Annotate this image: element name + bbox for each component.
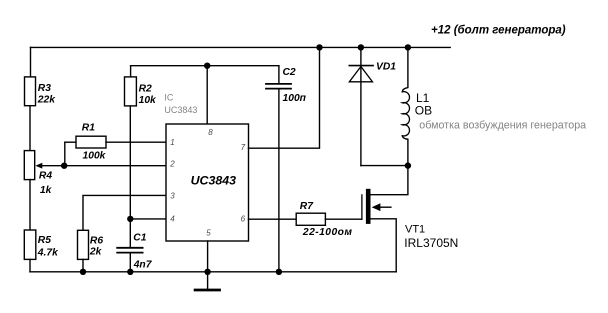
svg-text:8: 8 bbox=[208, 128, 213, 137]
svg-text:IC: IC bbox=[164, 92, 174, 102]
svg-text:100п: 100п bbox=[283, 93, 307, 104]
svg-text:7: 7 bbox=[241, 143, 246, 152]
svg-text:VD1: VD1 bbox=[376, 61, 396, 72]
svg-text:10k: 10k bbox=[139, 95, 157, 106]
svg-text:4.7k: 4.7k bbox=[37, 247, 59, 258]
svg-text:1: 1 bbox=[170, 138, 174, 147]
svg-text:IRL3705N: IRL3705N bbox=[404, 236, 458, 250]
svg-text:100k: 100k bbox=[83, 151, 107, 162]
svg-text:ОВ: ОВ bbox=[415, 104, 432, 118]
svg-text:6: 6 bbox=[241, 215, 246, 224]
svg-text:R6: R6 bbox=[90, 235, 103, 246]
svg-text:22-100ом: 22-100ом bbox=[302, 227, 353, 238]
svg-text:4n7: 4n7 bbox=[133, 260, 153, 271]
svg-text:3: 3 bbox=[170, 191, 175, 200]
svg-text:R2: R2 bbox=[139, 83, 152, 94]
svg-text:C1: C1 bbox=[133, 232, 146, 243]
svg-text:1k: 1k bbox=[40, 185, 53, 196]
svg-text:R7: R7 bbox=[300, 201, 314, 212]
svg-text:R5: R5 bbox=[38, 235, 51, 246]
svg-text:4: 4 bbox=[170, 214, 175, 223]
svg-text:R3: R3 bbox=[38, 83, 51, 94]
svg-text:5: 5 bbox=[206, 228, 211, 237]
svg-text:22k: 22k bbox=[37, 95, 56, 106]
svg-text:R1: R1 bbox=[82, 122, 95, 133]
svg-text:VT1: VT1 bbox=[405, 224, 425, 236]
svg-text:R4: R4 bbox=[39, 171, 52, 182]
svg-text:2: 2 bbox=[169, 160, 175, 169]
svg-text:UC3843: UC3843 bbox=[164, 105, 197, 115]
svg-text:C2: C2 bbox=[283, 67, 296, 78]
svg-text:UC3843: UC3843 bbox=[191, 173, 237, 187]
svg-text:L1: L1 bbox=[416, 91, 430, 105]
svg-text:обмотка возбуждения генератора: обмотка возбуждения генератора bbox=[419, 120, 586, 132]
svg-text:2k: 2k bbox=[89, 246, 103, 257]
svg-text:+12 (болт генератора): +12 (болт генератора) bbox=[431, 25, 566, 37]
